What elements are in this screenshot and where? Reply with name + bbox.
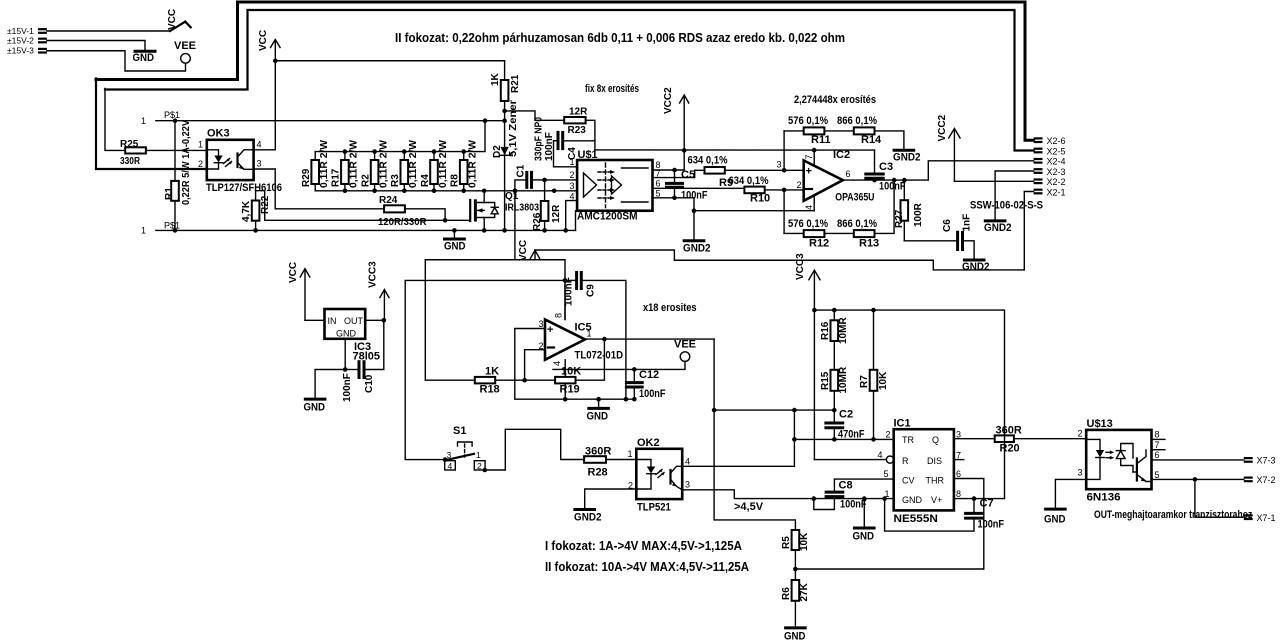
svg-text:CV: CV (902, 476, 915, 486)
svg-text:X2-5: X2-5 (1047, 146, 1066, 156)
svg-text:2: 2 (886, 430, 891, 440)
wire VCC distribution lower (515, 260, 565, 320)
resistor R5 10K (781, 530, 810, 580)
U$1 isolation barrier (605, 163, 607, 208)
svg-text:VCC: VCC (258, 30, 269, 51)
resistor R13 866 0.1% (837, 178, 896, 250)
ground GND2 (at OK2) (574, 510, 602, 524)
wire thick shunt high-current top loop to X2-6 (96, 2, 1034, 140)
svg-text:1: 1 (628, 449, 633, 459)
wire U$13 pin3 to GND (1055, 479, 1086, 508)
svg-text:C6: C6 (942, 219, 953, 232)
svg-text:27K: 27K (799, 582, 810, 601)
resistor R1 shunt 0.22R (164, 120, 192, 231)
resistor R15 10MR (820, 341, 849, 412)
resistor R26 12R (532, 180, 562, 233)
svg-text:TLP521: TLP521 (637, 502, 671, 514)
IC1 reset pin bubble (814, 459, 886, 461)
svg-text:IC1: IC1 (894, 418, 911, 430)
resistor R27 100R (894, 180, 924, 241)
svg-text:R23: R23 (568, 125, 587, 136)
svg-text:GND2: GND2 (984, 222, 1012, 234)
svg-text:R27: R27 (894, 209, 905, 228)
svg-text:0,11R 2/W: 0,11R 2/W (408, 139, 419, 188)
wire VCC3 through R20 body (1004, 435, 1006, 442)
svg-text:0,22R 5/W 1A-0,22V: 0,22R 5/W 1A-0,22V (181, 120, 192, 205)
svg-text:OUT-meghajtoaramkor tranziszto: OUT-meghajtoaramkor tranzisztorahoz (1094, 509, 1253, 521)
svg-text:4,7K: 4,7K (241, 200, 252, 222)
optocoupler U$13 6N136 (1078, 418, 1165, 504)
U$13 transistor (1136, 459, 1138, 481)
svg-text:R21: R21 (510, 74, 521, 93)
wire OK3 pin3 to R24 (254, 169, 385, 209)
svg-text:120R/330R: 120R/330R (378, 217, 427, 228)
svg-text:X2-1: X2-1 (1047, 187, 1066, 197)
svg-text:NE555N: NE555N (894, 513, 938, 525)
svg-text:VCC3: VCC3 (795, 253, 806, 280)
svg-text:7: 7 (1155, 440, 1160, 450)
svg-text:TR: TR (902, 435, 914, 445)
svg-text:II fokozat: 0,22ohm párhuzamos: II fokozat: 0,22ohm párhuzamosan 6db 0,1… (395, 30, 845, 45)
shunt resistor bank rails (315, 121, 485, 152)
svg-text:X7-1: X7-1 (1257, 513, 1276, 523)
svg-text:1: 1 (587, 329, 592, 339)
wire OK2 pin2 to GND2 (585, 489, 637, 509)
svg-text:TLP127/SFH6106: TLP127/SFH6106 (206, 182, 282, 194)
svg-text:R19: R19 (560, 384, 580, 396)
wire X2-3 to GND2 (995, 171, 1034, 220)
svg-text:GND: GND (784, 631, 806, 643)
svg-text:IN: IN (328, 316, 337, 326)
wire IC2 pin4 to GND2 line (694, 210, 814, 212)
ground GND (under R6) (784, 628, 806, 643)
svg-text:2: 2 (477, 461, 482, 471)
svg-text:6: 6 (656, 179, 661, 189)
svg-text:1: 1 (141, 226, 146, 236)
wire U$13 pin6 to X7-3 (1152, 459, 1244, 461)
resistor R2 0,11R 2/W (360, 139, 389, 193)
svg-text:VCC2: VCC2 (663, 87, 674, 114)
svg-text:Q: Q (932, 435, 939, 445)
svg-text:C7: C7 (980, 498, 994, 510)
svg-text:±15V-1: ±15V-1 (7, 26, 34, 36)
svg-text:X7-3: X7-3 (1257, 456, 1276, 466)
svg-text:5,1V Zener: 5,1V Zener (508, 100, 519, 157)
svg-text:GND2: GND2 (574, 512, 602, 524)
svg-text:C12: C12 (639, 369, 659, 381)
svg-text:VEE: VEE (674, 339, 696, 351)
svg-text:VCC: VCC (518, 240, 529, 261)
svg-text:2: 2 (570, 170, 575, 180)
svg-text:4: 4 (685, 457, 690, 467)
svg-text:>4,5V: >4,5V (734, 501, 764, 513)
svg-text:DIS: DIS (927, 456, 942, 466)
svg-text:10MR: 10MR (838, 317, 849, 344)
wire IC3 GND (344, 339, 346, 370)
ground GND (at IC3) (304, 399, 326, 413)
svg-text:TL072-01D: TL072-01D (575, 350, 624, 362)
svg-text:100nF: 100nF (978, 519, 1005, 531)
svg-text:x18 erosites: x18 erosites (643, 302, 697, 314)
resistor R20 360R (995, 425, 1086, 455)
wire VCC down to OK3 pin4 (254, 61, 276, 150)
capacitor C6 1nF (904, 214, 974, 260)
svg-text:II fokozat: 10A->4V MAX:4,5V-: II fokozat: 10A->4V MAX:4,5V->11,25A (545, 559, 750, 574)
OK2 phototransistor (669, 470, 671, 484)
supply symbol VEE circle (174, 40, 196, 63)
svg-text:866 0,1%: 866 0,1% (837, 218, 877, 230)
svg-text:GND: GND (853, 531, 875, 543)
svg-text:P$1: P$1 (164, 221, 180, 231)
U$13 internal LED (1086, 439, 1100, 450)
capacitor C1 330pF (513, 164, 547, 193)
resistor R11 576 0.1% (784, 115, 854, 146)
svg-text:6N136: 6N136 (1087, 492, 1121, 504)
svg-text:360R: 360R (996, 425, 1022, 437)
svg-text:R24: R24 (379, 195, 398, 206)
svg-text:R28: R28 (588, 467, 608, 479)
wire VCC2 node line to IC2 (595, 149, 875, 151)
svg-text:0,11R 2/W: 0,11R 2/W (349, 139, 360, 188)
svg-text:OK2: OK2 (637, 437, 660, 449)
svg-text:0,11R 2/W: 0,11R 2/W (319, 139, 330, 188)
svg-text:R4: R4 (420, 174, 431, 187)
ground GND2 (at C6) (962, 260, 990, 273)
svg-text:10MR: 10MR (838, 366, 849, 393)
svg-text:0,11R 2/W: 0,11R 2/W (378, 139, 389, 188)
svg-text:I fokozat: 1A->4V MAX:4,5V->1: I fokozat: 1A->4V MAX:4,5V->1,125A (545, 538, 743, 553)
svg-text:0,11R 2/W: 0,11R 2/W (438, 139, 449, 188)
svg-text:OK3: OK3 (207, 128, 230, 140)
resistor R17 0,11R 2/W (331, 139, 360, 193)
OK2 light arrows (656, 470, 662, 475)
svg-text:1nF: 1nF (962, 214, 973, 232)
wire U$1 pin4 to P$1 rail (566, 201, 577, 231)
ground GND (at U$13) (1044, 509, 1066, 525)
ground GND2 (at X2-3) (984, 221, 1012, 234)
wire VCC rail to R21 top (275, 61, 504, 80)
wire IC5 +in to GND rail (515, 329, 635, 400)
svg-text:2: 2 (797, 180, 802, 190)
svg-text:C1: C1 (516, 164, 527, 177)
IC IC1 NE555N (814, 418, 963, 526)
svg-text:R8: R8 (450, 174, 461, 187)
svg-text:GND2: GND2 (683, 243, 711, 255)
capacitor C8 100nF (812, 479, 894, 510)
wire U$13 pin5 to X7-2 and X7-1 (1152, 478, 1244, 480)
svg-text:R10: R10 (750, 193, 770, 205)
svg-text:R5: R5 (781, 536, 792, 549)
svg-text:GND: GND (587, 411, 609, 423)
svg-text:fix 8x erosítés: fix 8x erosítés (585, 83, 639, 95)
svg-text:IRL3803: IRL3803 (505, 203, 539, 214)
svg-text:634 0,1%: 634 0,1% (729, 175, 769, 187)
svg-text:3: 3 (685, 480, 690, 490)
capacitor C4 100nF (534, 117, 595, 161)
svg-text:8: 8 (956, 489, 961, 499)
transistor Q1 IRL3803 (470, 189, 539, 233)
wire U$1 pin7 to R9 (653, 170, 695, 177)
svg-text:VCC: VCC (167, 9, 178, 30)
junction VCC rail (273, 58, 278, 63)
svg-text:C5: C5 (681, 169, 695, 181)
svg-text:R7: R7 (859, 375, 870, 388)
capacitor C12 100nF (626, 367, 665, 401)
resistor R4 0,11R 2/W (420, 139, 449, 193)
capacitor C5 100nF (667, 168, 708, 202)
wire X2-1 to VCC line (535, 192, 1034, 270)
wire second top loop X2-5 to R25 feed (105, 10, 1034, 151)
svg-text:866 0,1%: 866 0,1% (837, 115, 877, 127)
svg-text:R20: R20 (1000, 443, 1020, 455)
wire TR line (794, 438, 893, 440)
wire IC5out net down to R5 and taps (714, 339, 795, 530)
svg-text:R15: R15 (820, 371, 831, 390)
svg-text:R26: R26 (532, 212, 543, 231)
svg-text:3: 3 (777, 160, 782, 170)
svg-text:8: 8 (1155, 430, 1160, 440)
svg-text:GND: GND (304, 402, 326, 414)
svg-text:R16: R16 (820, 321, 831, 340)
wire ±15V-2 to GND (47, 41, 145, 51)
U$13 pin stubs 8,7 (1152, 438, 1165, 440)
U$13 light arrows (1106, 451, 1112, 453)
wire U$1 pin6 to R10 (653, 188, 745, 190)
svg-text:R12: R12 (809, 238, 829, 250)
svg-text:U$1: U$1 (578, 149, 598, 161)
svg-text:3: 3 (257, 159, 262, 169)
optocoupler OK2 TLP521 (628, 437, 690, 514)
svg-text:6: 6 (846, 169, 851, 179)
diode D2 5.1V zener (492, 100, 519, 233)
svg-text:634 0,1%: 634 0,1% (688, 155, 728, 167)
resistor R24 120R/330R (378, 195, 470, 228)
resistor R29 0,11R 2/W (301, 139, 330, 190)
wire IC5 -in (525, 350, 545, 381)
ground GND (top-left) (133, 51, 156, 64)
wire VCC3 rail (814, 310, 1004, 499)
supply symbol VCC2 (right instance) (937, 114, 960, 181)
svg-text:OPA365U: OPA365U (835, 192, 874, 204)
svg-text:R13: R13 (859, 238, 879, 250)
svg-text:4: 4 (257, 140, 262, 150)
svg-text:330pF NP0: 330pF NP0 (534, 117, 545, 161)
svg-text:10K: 10K (878, 371, 889, 390)
OK2 internal LED (636, 460, 651, 467)
IC U$1 AMC1200SM (570, 149, 661, 223)
svg-text:VCC: VCC (288, 262, 299, 283)
svg-text:4: 4 (570, 192, 575, 202)
wire VCC corner down from shunt rail (514, 191, 516, 260)
svg-text:4: 4 (804, 205, 814, 210)
svg-text:X2-3: X2-3 (1047, 167, 1066, 177)
svg-text:100nF: 100nF (342, 373, 353, 402)
svg-text:R11: R11 (811, 134, 831, 146)
ground GND (under Q1) (444, 228, 466, 252)
OK3 phototransistor (236, 154, 238, 168)
svg-text:1: 1 (570, 157, 575, 167)
svg-text:X7-2: X7-2 (1257, 475, 1276, 485)
svg-text:7: 7 (804, 154, 814, 159)
resistor R23 12R (564, 107, 595, 150)
svg-text:6: 6 (1155, 450, 1160, 460)
svg-text:100R: 100R (913, 202, 924, 227)
svg-text:IC2: IC2 (833, 149, 850, 161)
svg-text:10K: 10K (561, 366, 581, 378)
resistor R8 0,11R 2/W (450, 139, 479, 193)
svg-text:10K: 10K (799, 532, 810, 551)
svg-text:AMC1200SM: AMC1200SM (577, 211, 638, 223)
svg-text:VEE: VEE (174, 40, 196, 52)
svg-text:5: 5 (884, 469, 889, 479)
svg-text:4: 4 (448, 461, 453, 471)
resistor R3 0,11R 2/W (390, 139, 419, 193)
wire Q output to R20 (954, 438, 995, 440)
svg-text:GND: GND (336, 329, 357, 339)
svg-text:6: 6 (956, 469, 961, 479)
svg-text:GND2: GND2 (962, 261, 990, 273)
supply symbol VCC (IC3 input) (288, 262, 310, 320)
svg-text:S1: S1 (453, 425, 466, 437)
ground GND2 (under C5) (683, 241, 711, 255)
capacitor C7 100nF (882, 496, 1004, 531)
resistor R10 634 0.1% (729, 175, 804, 205)
svg-text:1K: 1K (490, 72, 501, 86)
svg-text:GND: GND (444, 241, 466, 253)
svg-text:360R: 360R (585, 446, 611, 458)
svg-text:5: 5 (1155, 470, 1160, 480)
ground GND (under NE555) (853, 496, 875, 542)
supply symbol VCC (top-left) (167, 9, 191, 31)
svg-text:C3: C3 (879, 161, 893, 173)
svg-text:3: 3 (1078, 468, 1083, 478)
svg-text:R22: R22 (260, 195, 271, 214)
svg-text:R6: R6 (781, 587, 792, 600)
svg-text:±15V-3: ±15V-3 (7, 46, 34, 56)
switch S1 (443, 425, 584, 472)
svg-text:1: 1 (141, 116, 146, 126)
svg-text:VCC2: VCC2 (937, 114, 948, 141)
resistor R14 866 0.1% (837, 115, 904, 149)
capacitor C10 100nF (342, 320, 384, 402)
svg-text:C2: C2 (839, 409, 853, 421)
svg-text:R18: R18 (480, 384, 500, 396)
op-amp IC2 OPA365U (777, 148, 875, 211)
svg-text:X2-6: X2-6 (1047, 136, 1066, 146)
U$1 internal amps (584, 173, 597, 197)
wire C4 to U$1 pin1 (554, 141, 578, 167)
connector X7 pins (1244, 456, 1276, 523)
svg-text:5: 5 (656, 189, 661, 199)
connector X2 pins (1034, 136, 1066, 197)
resistor R6 27K (781, 580, 810, 627)
svg-text:Q1: Q1 (505, 191, 519, 202)
svg-text:±15V-2: ±15V-2 (7, 36, 34, 46)
wire U$1 pin5 to GND2 (653, 198, 695, 240)
wire IC5 output (585, 338, 714, 340)
wire ±15V-3 to VEE (47, 51, 186, 71)
svg-text:2: 2 (1078, 429, 1083, 439)
OK3 light arrows (224, 159, 230, 164)
feedback verticals IC2 (783, 131, 785, 170)
svg-text:D2: D2 (492, 145, 503, 158)
supply symbol VCC (arrow at x=275) (258, 30, 280, 61)
svg-text:SSW-106-02-S-S: SSW-106-02-S-S (970, 200, 1043, 212)
svg-text:4: 4 (878, 450, 883, 460)
svg-text:GND2: GND2 (893, 152, 921, 164)
svg-text:78l05: 78l05 (353, 351, 381, 363)
svg-text:2: 2 (198, 159, 203, 169)
svg-text:C10: C10 (364, 374, 375, 393)
resistor R16 10MR (820, 308, 849, 344)
svg-text:12R: 12R (569, 107, 588, 118)
svg-text:THR: THR (926, 476, 945, 486)
svg-text:330R: 330R (120, 156, 141, 167)
capacitor C9 100nF (564, 273, 626, 400)
svg-text:C8: C8 (839, 480, 853, 492)
wire ±15V-1 to VCC (47, 30, 170, 32)
svg-text:12R: 12R (551, 204, 562, 223)
optocoupler OK3 TLP127/SFH6106 (198, 128, 282, 195)
resistor R18 1K (475, 366, 555, 396)
svg-text:1: 1 (476, 450, 481, 460)
svg-text:V+: V+ (931, 495, 942, 505)
wire U$1 pin2 stub (545, 179, 578, 181)
svg-text:+: + (806, 166, 812, 178)
svg-text:100nF: 100nF (639, 388, 666, 400)
svg-text:GND: GND (133, 52, 155, 64)
wire OK2 pin3 to NE555 GND line (682, 490, 894, 499)
svg-text:P$1: P$1 (164, 110, 180, 120)
IC1 DIS stub (954, 459, 964, 461)
svg-text:576 0,1%: 576 0,1% (788, 115, 828, 127)
svg-text:GND: GND (902, 495, 923, 505)
wire R21 junction to R23/C4 (505, 111, 565, 120)
svg-text:8: 8 (554, 313, 564, 318)
supply symbol VCC3 (at NE555) (795, 253, 820, 460)
svg-text:R29: R29 (301, 168, 312, 187)
resistor R21 1K (490, 72, 521, 113)
svg-text:C9: C9 (586, 284, 597, 297)
svg-text:1: 1 (198, 140, 203, 150)
resistor R9 634 0.1% (688, 155, 804, 190)
svg-text:100nF: 100nF (879, 181, 906, 193)
svg-text:R2: R2 (360, 174, 371, 187)
resistor R7 10K (859, 308, 889, 442)
resistor R19 10K (555, 337, 607, 396)
supply symbol VCC2 (left instance) (663, 87, 689, 151)
svg-text:3: 3 (570, 181, 575, 191)
OK3 internal LED (207, 150, 219, 156)
op-amp IC5 TL072-01D (539, 280, 624, 401)
wire IC2 output to X2-4 (843, 161, 1034, 180)
U$13 photodiode (1116, 451, 1125, 459)
wire tap to OK2 pin4 (714, 409, 834, 411)
svg-text:R1: R1 (164, 187, 175, 200)
wire U$1 pin8 to VCC2 (653, 151, 685, 171)
svg-text:X2-4: X2-4 (1047, 157, 1066, 167)
svg-text:576 0,1%: 576 0,1% (788, 218, 828, 230)
svg-text:U$13: U$13 (1087, 418, 1113, 430)
resistor R28 360R (584, 446, 636, 479)
svg-text:R17: R17 (331, 168, 342, 187)
wire VCC2 to X2-2 (954, 180, 1033, 182)
svg-text:0,11R 2/W: 0,11R 2/W (468, 139, 479, 188)
wire to S1 feed (405, 280, 565, 459)
svg-text:VCC3: VCC3 (368, 261, 379, 288)
svg-text:X2-2: X2-2 (1047, 177, 1066, 187)
ground GND2 (at R14) (893, 150, 921, 163)
